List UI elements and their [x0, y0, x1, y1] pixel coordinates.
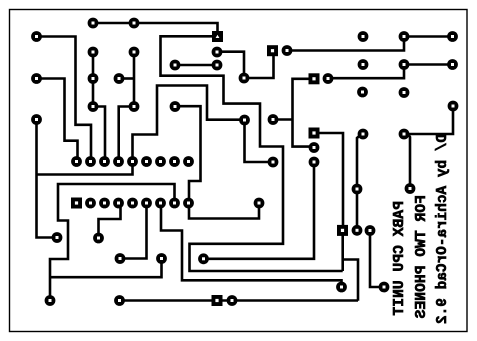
- pad P18: [268, 114, 279, 125]
- pad P9: [129, 47, 140, 58]
- pad P11: [31, 114, 42, 125]
- pad P28: [399, 59, 410, 70]
- pad P14: [212, 60, 223, 71]
- pad P6: [88, 73, 99, 84]
- pad P26: [447, 31, 458, 42]
- wire P5-P6-P7 column: [92, 52, 95, 107]
- pad P49: [254, 198, 265, 209]
- wire U1 row-top pin5 staircase to P17: [133, 86, 245, 162]
- net A winding: SQ1 to SQ5: [161, 36, 343, 271]
- wire P17 down to P19: [245, 120, 274, 162]
- pad P7: [88, 101, 99, 112]
- pad P23: [309, 157, 320, 168]
- wire branch to P47: [50, 259, 162, 278]
- pad P4: [31, 73, 42, 84]
- wire U1 row-bottom pin6 to P46: [120, 203, 147, 259]
- pad P43: [45, 295, 56, 306]
- square pad SQ1 (pin1): [212, 31, 223, 42]
- net A stub: SQ4 to SQ5: [314, 133, 343, 230]
- pad P36: [352, 184, 363, 195]
- pad P13: [170, 60, 181, 71]
- pad U1 pin row-top 6: [141, 156, 152, 167]
- pad P40: [379, 282, 390, 293]
- wire P15 to P16: [217, 52, 244, 78]
- pad P42: [93, 233, 104, 244]
- wire P28 to P29: [404, 63, 453, 66]
- pad U1 pin row-top 4: [113, 156, 124, 167]
- pad P22: [309, 142, 320, 153]
- wire P25 to P26: [404, 35, 453, 38]
- wire P32 to P34: [404, 106, 453, 134]
- wire P44 bottom rail via SQ6 P45: [120, 299, 359, 302]
- pad U1 pin row-top 2: [85, 156, 96, 167]
- wire branch to U1 row-top pin5: [37, 162, 133, 175]
- pad U1 pin row-bottom 6: [141, 198, 152, 209]
- mirrored text column D/ by Achira-OrCad 9.2: [436, 134, 450, 324]
- wire P34 to P35: [408, 134, 410, 189]
- pad P44: [114, 295, 125, 306]
- pad P37: [352, 225, 363, 236]
- pad P32: [448, 101, 459, 112]
- square pad SQ5: [337, 225, 348, 236]
- net A stub: SQ5 down to junction: [341, 230, 344, 271]
- pad P17: [239, 115, 250, 126]
- square pad SQ2: [267, 45, 278, 56]
- pad P1: [88, 18, 99, 29]
- square pad SQ6: [212, 295, 223, 306]
- pad U1 pin row-top 1: [71, 156, 82, 167]
- pad P24: [358, 31, 369, 42]
- pad P47: [156, 253, 167, 264]
- net A branch to bottom rail: [343, 260, 358, 301]
- wire P10 to U1 row-top pin4: [119, 107, 134, 162]
- wire P42 to U1 row-bottom pin4: [99, 203, 121, 238]
- pad U1 pin row-top 3: [99, 156, 110, 167]
- wire P21 to P28: [328, 65, 404, 79]
- pad P31: [399, 87, 410, 98]
- wire U1 row-bottom pin8 to P43: [50, 184, 175, 301]
- wire P37 up to P36 P33: [357, 135, 361, 231]
- pad P21: [323, 73, 334, 84]
- net A top: P1-P2-SQ1: [93, 23, 218, 37]
- pad P39: [336, 282, 347, 293]
- pad P45: [227, 295, 238, 306]
- wire P12 to U1 row-bottom pin9 to P49: [175, 106, 259, 218]
- pad P33: [358, 129, 369, 140]
- mirrored text column FOR TWO PHONES: [415, 195, 430, 318]
- pad P5: [88, 47, 99, 58]
- pad U1 pin row-top 8: [169, 156, 180, 167]
- pad U1 pin row-bottom 3: [99, 198, 110, 209]
- pad P48: [198, 253, 209, 264]
- pad U1 pin row-bottom 5: [127, 198, 138, 209]
- wire P13 to P14: [175, 64, 217, 67]
- pad U1 pin row-top 9: [183, 156, 194, 167]
- pad U1 pin row-bottom 4: [113, 198, 124, 209]
- pad P19: [268, 157, 279, 168]
- pad P10: [129, 101, 140, 112]
- wire branch P18: [273, 118, 293, 121]
- pad P8: [114, 73, 125, 84]
- pad P34: [399, 129, 410, 140]
- pad P15: [212, 47, 223, 58]
- square pad SQ4: [309, 128, 320, 139]
- pad P27: [358, 59, 369, 70]
- square pad SQ3: [309, 73, 320, 84]
- wire P38 to P40: [370, 231, 384, 288]
- wire P8 to P9-P10 column: [119, 77, 134, 80]
- pad P41: [52, 232, 63, 243]
- pad P35: [405, 183, 416, 194]
- pad P29: [447, 59, 458, 70]
- wire P3 to U1 row-top pin2: [37, 37, 92, 162]
- pad U1 pin row-bottom 2: [85, 198, 96, 209]
- square pad U1 pin 1 square: [71, 198, 82, 209]
- pad P2: [129, 18, 140, 29]
- pad U1 pin row-top 7: [155, 156, 166, 167]
- pad U1 pin row-top 5: [127, 156, 138, 167]
- wire P16 to SQ2: [244, 51, 274, 78]
- wire SQ3 to P22 with branch: [293, 79, 315, 147]
- wire P11 down to P41: [37, 120, 58, 238]
- pad P46: [115, 253, 126, 264]
- pad P16: [239, 73, 250, 84]
- pad P30: [357, 87, 368, 98]
- wire P9 to P10: [133, 52, 136, 107]
- mirrored text column PABX CPU UNIT: [393, 201, 408, 316]
- pad P12: [170, 101, 181, 112]
- wire P7 to U1 row-top pin3: [93, 107, 105, 162]
- wire U1 row-bottom pin7 to P39: [161, 203, 342, 285]
- pad U1 pin row-bottom 9: [183, 198, 194, 209]
- wire P20 to P25: [287, 37, 404, 51]
- wire P4 to U1 row-top pin1: [37, 79, 78, 162]
- pad P3: [31, 31, 42, 42]
- pad U1 pin row-bottom 7: [155, 198, 166, 209]
- pad U1 pin row-bottom 8: [169, 198, 180, 209]
- pad P38: [365, 225, 376, 236]
- wire P23 down to P48: [204, 162, 315, 259]
- pad P20: [282, 45, 293, 56]
- pad P25: [399, 31, 410, 42]
